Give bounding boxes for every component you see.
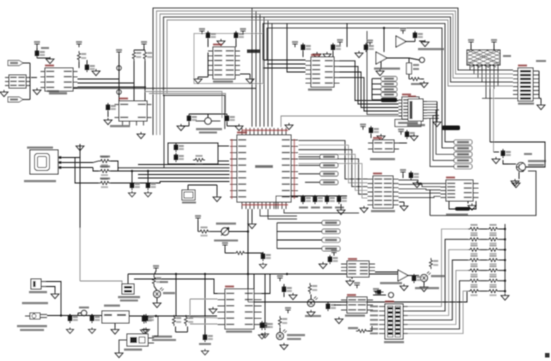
junction rail 1	[504, 228, 506, 230]
junction rail x248	[247, 273, 249, 275]
wire RL5 mid	[480, 269, 487, 271]
ground U7 b	[323, 52, 331, 59]
label LIPO CHARGER	[110, 125, 130, 127]
wire keypad to ladder 3	[408, 250, 468, 316]
label GREEN	[163, 292, 175, 294]
capacitor C20	[405, 130, 415, 139]
VCC above R9	[195, 215, 201, 221]
connector J8 temp probe	[127, 334, 154, 346]
resistor R8 in loop	[193, 155, 205, 165]
VCC above C14	[240, 28, 246, 34]
ground U3 right	[246, 77, 254, 84]
label trim note	[214, 240, 238, 242]
connector J4 EXTRA IO	[518, 68, 533, 101]
wire x205 drop	[204, 274, 206, 336]
wire D- long line to MCU	[111, 170, 230, 172]
connector J2 USB	[30, 150, 62, 174]
label C10 value	[41, 47, 49, 49]
capacitor C23 bypass	[337, 195, 347, 204]
label WALL ADAPTER a	[17, 325, 47, 327]
wire Y2 to gnd net	[188, 184, 217, 186]
wire SEG riser	[276, 223, 278, 249]
net name keypad 1	[370, 306, 378, 308]
ground above USB	[76, 144, 84, 151]
resistor RL5a	[468, 265, 480, 275]
ground MCU bottom	[248, 222, 256, 229]
wire R11 to TP2	[409, 58, 420, 60]
net label SEG1	[322, 221, 340, 226]
wire RL5 to rail	[499, 269, 505, 271]
label under U7	[308, 89, 332, 91]
VCC above C15	[292, 41, 298, 47]
op-amp U8A	[396, 36, 406, 47]
wire RL3 mid	[480, 249, 487, 251]
junction rail x205	[204, 273, 206, 275]
wire battery gnd	[46, 287, 55, 293]
ground near Y2	[213, 195, 221, 202]
wire R11 to R12	[408, 74, 410, 79]
pins J4 right	[533, 71, 539, 98]
resistor RL4a	[468, 255, 480, 265]
wire into U7 pin3	[263, 67, 306, 69]
wire keypad right pin 7	[403, 333, 408, 335]
speaker SP1	[388, 292, 393, 297]
resistor R14	[172, 315, 181, 326]
label C23 value	[335, 207, 344, 209]
wire to AUX4	[372, 94, 381, 96]
connector J5 aux header	[408, 99, 427, 121]
label U9 refdes	[119, 98, 128, 100]
wire C11 up	[86, 60, 88, 64]
wire MCU right bus 4	[299, 154, 368, 190]
net label PWM1	[320, 155, 338, 160]
wire U15 out	[408, 275, 419, 277]
wire J8 to rail	[154, 316, 158, 336]
IC U4 FT232RL	[41, 68, 78, 91]
wire keypad to ladder 7	[408, 291, 468, 333]
resistor R15	[184, 315, 193, 326]
wire USB VBUS	[62, 157, 80, 159]
wire U11 to L1	[449, 201, 455, 209]
wire VBUS gray segment	[79, 228, 81, 281]
capacitor C41	[326, 302, 336, 311]
wire to PWM4	[305, 181, 320, 183]
wire battery to rail	[46, 282, 61, 316]
wire keypad to ladder 2	[408, 239, 468, 311]
resistor RL1b	[487, 224, 499, 234]
label CONTRAST ADJUST	[216, 223, 236, 225]
wire cap bank stub 2	[314, 196, 316, 198]
wire keypad right pin 1	[403, 306, 408, 308]
wire R9 to VR1	[210, 231, 221, 233]
label box EXTERNAL ADC	[395, 120, 421, 127]
label U12 REG	[104, 305, 120, 307]
wire J5 pin 5	[427, 112, 437, 114]
wire U13 gray c	[190, 323, 218, 325]
wire VBUS sense down	[79, 158, 81, 229]
net label IO5	[454, 164, 472, 169]
capacitor C13	[206, 31, 216, 40]
wire U8B out right	[387, 57, 409, 59]
ground under C7	[259, 263, 266, 269]
resistor R8b series	[99, 178, 111, 188]
fuse F2	[81, 310, 87, 316]
wire thermistor up	[127, 274, 129, 284]
wire U17 to U11 net 4	[399, 192, 441, 194]
label F2	[79, 307, 89, 309]
wire to PWM1	[299, 156, 321, 158]
wire MCU right bus 5	[299, 159, 368, 194]
wire bus line 5	[167, 20, 513, 93]
label AVX THERMISTOR b	[120, 300, 138, 302]
crystal Y1	[205, 118, 212, 125]
wire J5 pin 6	[427, 115, 437, 117]
ground battery	[51, 292, 59, 299]
resistor network RN1	[467, 50, 500, 68]
op-amp U8B	[376, 52, 387, 64]
wire J5 pin 1	[427, 101, 437, 103]
label EXTERNAL BATT a	[152, 336, 172, 338]
boundary gray box around U3	[194, 34, 263, 84]
wire RL7 mid	[480, 290, 487, 292]
wire gray to thermistor	[80, 281, 122, 284]
resistor R13	[152, 275, 161, 286]
ground crystal left	[177, 124, 185, 131]
VCC above F1	[116, 49, 122, 55]
wire MCU bottom to gnd	[251, 209, 253, 222]
power jack J7	[25, 313, 47, 319]
ground under C12	[104, 118, 112, 125]
connector J3 external ADC	[399, 97, 420, 119]
wire keypad left pin 5	[379, 324, 385, 326]
ground left of amp	[355, 51, 363, 58]
resistor R19 reset	[356, 329, 368, 332]
label U3 dark tag	[247, 50, 260, 53]
label FT232RL	[49, 92, 67, 95]
wire RL4 mid	[480, 259, 487, 261]
thermistor RT1	[122, 284, 134, 294]
ground U17 left	[360, 206, 368, 213]
ground under C5b	[144, 191, 151, 197]
IC U13 power switch	[218, 289, 262, 329]
crystal Y1 body	[196, 116, 221, 121]
wire C1 to gnd	[188, 123, 190, 126]
wire keypad left pin 2	[379, 310, 385, 312]
label J5 refdes	[408, 96, 416, 98]
label U10 refdes	[373, 137, 382, 139]
wire vertical x119 to charger	[118, 55, 120, 101]
ground C39	[319, 262, 327, 269]
label U16 refdes	[347, 294, 356, 296]
label Q1 ref	[524, 153, 532, 155]
IC U17 codec	[368, 176, 399, 208]
resistor R16	[278, 316, 287, 327]
wire MCU top pin riser 2	[255, 11, 257, 127]
fiducial mark bottom right	[545, 353, 550, 358]
wire RL2 mid	[480, 238, 487, 240]
resistor RL5b	[487, 265, 499, 275]
test point TP1	[117, 90, 122, 95]
wire U13 out up	[262, 274, 271, 294]
VCC C38	[277, 275, 283, 281]
label BLACKBERRY USB CABLE	[24, 180, 56, 182]
capacitor C4 in loop	[174, 153, 184, 162]
ground under C31	[88, 328, 95, 334]
resistor RL3b	[487, 245, 499, 255]
connector J6 battery	[31, 279, 46, 289]
label under U13	[226, 331, 252, 333]
junction rail 3	[504, 249, 506, 251]
label U4 part number	[47, 90, 59, 92]
wire RN1 leg 1	[469, 65, 471, 70]
junction C5b	[147, 170, 149, 172]
wire thermistor to U13	[134, 279, 218, 294]
wire MCU top pin riser 6	[271, 24, 273, 127]
capacitor C7	[261, 252, 271, 261]
LED D1 green	[153, 288, 163, 298]
wire MCU pin down to rail 274	[247, 209, 249, 274]
junction C30	[69, 314, 71, 316]
label Y2	[182, 202, 196, 204]
wire RL3 to rail	[499, 249, 505, 251]
wire net corner x164	[164, 95, 225, 168]
wire bus line 2	[157, 11, 514, 135]
junction rail 4	[504, 259, 506, 261]
wire RL1 mid	[480, 228, 487, 230]
wire RN1 leg 4	[481, 65, 483, 82]
ground near Q1	[511, 179, 519, 186]
wire MCU bottom net c	[284, 209, 359, 213]
capacitor C32	[142, 315, 152, 324]
wire into U7 pin2	[267, 63, 306, 65]
net label IO4	[454, 158, 472, 163]
resistor R3 pull-up	[77, 51, 86, 62]
wire net y28 to IO2	[267, 28, 454, 148]
wire R19 up	[368, 326, 372, 331]
wire cap bank stub 3	[326, 196, 328, 198]
ground under C5a	[128, 191, 135, 197]
capacitor C12	[106, 103, 116, 112]
capacitor C20 bypass	[301, 195, 311, 204]
ground left of C21	[492, 157, 500, 164]
resistor RL6b	[487, 276, 499, 286]
wire x248 to y302	[247, 274, 249, 302]
ground ladder rail	[501, 294, 509, 301]
wire C13 to U3	[207, 40, 209, 47]
ground under D1	[153, 301, 161, 308]
wire to R7	[93, 168, 99, 172]
label J4 ref	[536, 60, 546, 62]
junction C5a	[131, 170, 133, 172]
wire horizontal y302	[248, 291, 467, 302]
wire MCU right bus 1	[299, 141, 368, 180]
label D3	[305, 315, 321, 317]
pin numbers MCU right	[294, 139, 296, 199]
resistor R18	[429, 258, 438, 269]
capacitor C14	[234, 31, 244, 40]
wire cap bank stub 1	[302, 196, 304, 198]
wire to R8b	[75, 158, 99, 184]
resistor ladder rail right	[504, 224, 506, 293]
capacitor C10	[35, 49, 45, 58]
wire C2 to gnd	[226, 123, 228, 126]
capacitor C33	[203, 333, 213, 342]
label GAIN AMPLIFIER	[374, 68, 400, 70]
net label dark BATT	[442, 126, 460, 131]
resistor RL3a	[468, 245, 480, 255]
wire MCU right bus 6	[299, 164, 368, 199]
trimmer VR1	[221, 228, 229, 236]
wire gray vertical x493	[493, 89, 495, 152]
label R6	[100, 156, 110, 158]
resistor RL1a	[468, 224, 480, 234]
wire RN1 leg 7	[493, 65, 495, 89]
label C21 value	[311, 207, 320, 209]
capacitor C1 crystal	[187, 114, 197, 123]
wire MCU right bus 3	[299, 150, 368, 187]
ground right of C18	[421, 40, 429, 47]
ground under J8	[115, 351, 123, 358]
ground top right frame	[512, 181, 520, 188]
wire x265 drop	[264, 274, 266, 324]
pin numbers MCU top	[242, 130, 288, 132]
wire U17 to U11 net 1	[399, 180, 441, 184]
ground mid U3 top	[217, 39, 225, 46]
resistor R10	[234, 251, 246, 254]
ground MCU top right	[285, 123, 293, 130]
resistor RL2a	[468, 234, 480, 244]
wire VR1 to rail	[247, 232, 249, 275]
wire U7 out2 to ADC	[340, 66, 399, 104]
IC U14 op-amp	[341, 261, 375, 277]
wire gray net y116	[281, 116, 402, 127]
net label IO1	[454, 140, 472, 145]
wire to flag2	[23, 99, 30, 101]
label Q1 b	[528, 164, 544, 166]
wire U3 right pin to gnd	[240, 73, 250, 75]
wire U7 out1 to ADC	[340, 61, 399, 101]
net name keypad 6	[370, 328, 378, 330]
wire VR1 to x248	[229, 231, 248, 233]
wire MCU left net 3	[138, 174, 230, 176]
wire keypad to ladder 4	[408, 260, 468, 320]
wire to SEG3	[277, 239, 322, 241]
wire main rail y274	[128, 273, 406, 275]
transistor Q1	[516, 162, 526, 171]
ground right of C10	[46, 57, 54, 64]
resistor RL7b	[487, 286, 499, 296]
IC U7 accelerometer	[306, 57, 340, 87]
net name keypad 2	[370, 310, 378, 312]
LED D3 backlight	[307, 297, 317, 307]
capacitor C35	[144, 314, 154, 323]
wire R15 down	[187, 327, 189, 333]
wire regulator output rail	[129, 315, 217, 317]
wire RN1 leg 8	[497, 65, 499, 86]
label USB CONNECTOR	[27, 147, 53, 149]
wire MCU to cap bank rail	[276, 196, 347, 209]
wire U8B gnd stem	[380, 61, 382, 69]
net name keypad 4	[370, 319, 378, 321]
VCC above R10	[222, 242, 228, 248]
junction rail 2	[504, 238, 506, 240]
ground under U15	[400, 284, 408, 291]
wire to AUX3	[372, 88, 381, 90]
wire keypad right pin 5	[403, 324, 408, 326]
resistor R7 series	[99, 166, 111, 176]
ground U17 right	[400, 204, 408, 211]
label U4 refdes	[45, 65, 54, 67]
wire RN1 leg 2	[473, 65, 475, 74]
wire U8A out	[406, 41, 415, 43]
IC U11 external EEPROM	[441, 180, 479, 201]
IC U5 level shifter	[5, 75, 30, 88]
label WALL ADAPTER b	[20, 329, 44, 331]
junction LED chain	[155, 315, 157, 317]
wire rail into regulator	[47, 315, 102, 317]
junction rail 6	[504, 280, 506, 282]
VCC above C19	[360, 124, 366, 130]
label U11 refdes	[446, 177, 455, 179]
label EXTRA IO	[518, 103, 534, 105]
wire J5 pin 3	[427, 106, 437, 108]
label KEYPAD	[384, 341, 404, 343]
net label SEG2	[322, 229, 340, 234]
wire RL4 to rail	[499, 259, 505, 261]
label C22 value	[323, 207, 332, 209]
wire x176 rail drop	[175, 274, 177, 316]
IC U1 MSP430	[230, 128, 298, 209]
wire gray pair a	[145, 92, 222, 119]
wire cap bank top rail	[303, 195, 347, 197]
wire keypad left pin 3	[379, 315, 385, 317]
wire into U7 pin4	[287, 24, 306, 73]
junction rail 7	[504, 290, 506, 292]
wire MCU top pin riser 5	[267, 20, 269, 126]
wire U4 TXD long wire	[78, 86, 147, 88]
label U14 refdes	[348, 258, 357, 260]
wire keypad to ladder 1	[408, 229, 468, 307]
wire U5 pin to gnd stem	[31, 77, 37, 79]
label under U3	[213, 81, 233, 83]
IC U12 LDO regulator	[102, 311, 129, 323]
label U3 refdes	[213, 44, 222, 46]
net label AUX4	[381, 92, 397, 96]
label R8b	[100, 178, 110, 180]
ground under D3	[307, 310, 315, 317]
label U7 refdes	[311, 54, 320, 56]
VCC above RN1 left	[468, 39, 474, 45]
net label SEG3	[322, 238, 340, 243]
wire R3 to U4	[78, 62, 80, 68]
label U1 refdes	[237, 132, 247, 134]
wire MCU top pin riser 1	[251, 8, 253, 127]
wire RL6 to rail	[499, 280, 505, 282]
wire net y23 to IO1	[263, 24, 454, 142]
wire MCU bottom net a	[260, 209, 297, 216]
wire to R11	[408, 58, 410, 63]
wire J5 pin 2	[427, 103, 437, 105]
wire U13 gray a	[190, 298, 218, 300]
wire loop to MCU a	[218, 145, 229, 147]
wire R4 to charger	[133, 61, 135, 101]
ground under U8B	[376, 69, 384, 76]
junction rail x287	[286, 273, 288, 275]
label AUX HDR	[407, 124, 425, 126]
ground U11	[468, 204, 476, 211]
net label IO2	[454, 146, 472, 151]
resistor RL2b	[487, 234, 499, 244]
